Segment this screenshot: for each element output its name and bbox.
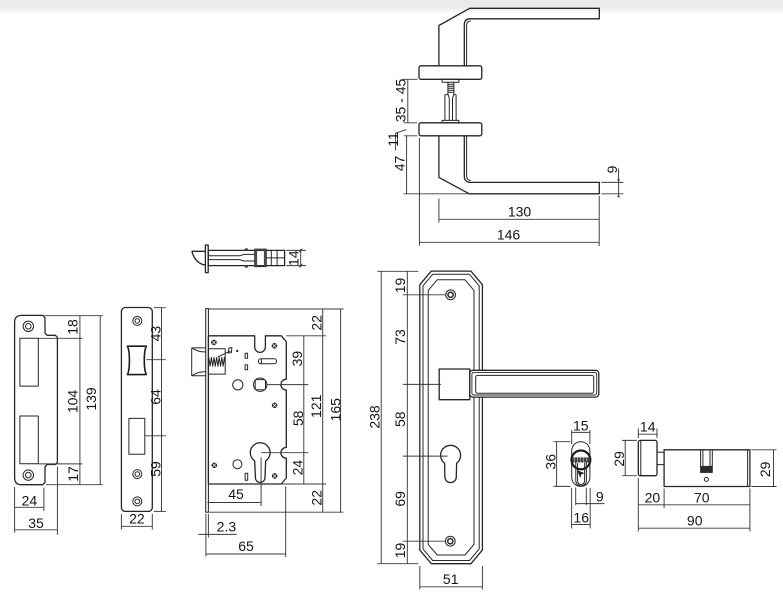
dimension 65 bbox=[206, 487, 286, 558]
escutcheon screws bbox=[445, 290, 455, 546]
svg-text:43: 43 bbox=[148, 326, 164, 342]
thumbturn front view bbox=[572, 442, 591, 487]
dimension 36 bbox=[542, 442, 570, 487]
svg-text:165: 165 bbox=[328, 398, 344, 422]
dimension 59 bbox=[148, 461, 166, 511]
svg-text:70: 70 bbox=[694, 489, 710, 505]
dimension 238 bbox=[367, 271, 383, 563]
lever grip front bbox=[470, 370, 599, 397]
cylinder neck bbox=[657, 452, 664, 464]
cylinder hole euro profile bbox=[250, 443, 270, 483]
dimension 24 (strike) bbox=[15, 487, 44, 533]
svg-text:35: 35 bbox=[28, 515, 44, 531]
svg-text:146: 146 bbox=[497, 226, 521, 242]
lower rosette bbox=[419, 123, 482, 136]
strike plate bbox=[15, 315, 58, 484]
svg-text:9: 9 bbox=[596, 488, 604, 504]
dimension 24 (lock) bbox=[282, 460, 326, 484]
dimension 14 (cylinder) bbox=[638, 419, 657, 438]
svg-text:139: 139 bbox=[83, 387, 99, 411]
dimension 17 bbox=[46, 466, 103, 485]
dimension 73 bbox=[392, 329, 441, 384]
dimension 35-45 bbox=[393, 78, 418, 122]
lock body faceplate strip bbox=[206, 309, 209, 513]
dimension 11 bbox=[385, 130, 406, 151]
dimension 39 bbox=[267, 336, 309, 484]
svg-text:18: 18 bbox=[64, 319, 80, 335]
dimension 29 right bbox=[751, 450, 776, 487]
dimension 146 bbox=[419, 138, 599, 246]
small rect lower bbox=[245, 473, 248, 480]
dimension 130 bbox=[439, 196, 599, 246]
svg-text:24: 24 bbox=[22, 492, 38, 508]
svg-text:9: 9 bbox=[604, 165, 620, 173]
small rectangles bbox=[245, 353, 248, 358]
svg-text:11: 11 bbox=[385, 132, 401, 147]
faceplate bbox=[121, 308, 152, 512]
dimension 22 top (lock) bbox=[209, 309, 344, 512]
svg-text:2.3: 2.3 bbox=[217, 518, 237, 534]
dimension 47 bbox=[392, 136, 470, 194]
svg-text:130: 130 bbox=[508, 203, 532, 219]
dimension 58 (lock) bbox=[261, 410, 308, 452]
escutcheon keyhole bbox=[441, 445, 461, 482]
svg-text:35 - 45: 35 - 45 bbox=[393, 78, 409, 122]
dimension 35 (strike) bbox=[15, 467, 58, 535]
svg-text:16: 16 bbox=[573, 509, 589, 525]
latch spring bbox=[209, 357, 225, 366]
dimension 15 bbox=[572, 417, 590, 444]
dimension 43 bbox=[146, 308, 166, 512]
dimension 45 bbox=[207, 458, 261, 507]
upper rosette bbox=[419, 66, 482, 80]
dot bbox=[236, 350, 238, 352]
svg-text:20: 20 bbox=[645, 489, 661, 505]
small circle bbox=[233, 460, 242, 469]
svg-text:19: 19 bbox=[392, 278, 408, 294]
svg-text:14: 14 bbox=[286, 250, 302, 266]
cylinder knob bbox=[638, 440, 657, 475]
svg-text:73: 73 bbox=[392, 329, 408, 345]
cylinder body bbox=[664, 450, 750, 487]
dimension 14 (latch) bbox=[286, 249, 306, 267]
svg-text:58: 58 bbox=[290, 410, 306, 426]
svg-text:39: 39 bbox=[289, 351, 305, 367]
dimension 64 bbox=[145, 389, 166, 436]
dimension 20 bbox=[638, 478, 750, 532]
svg-text:59: 59 bbox=[148, 461, 164, 477]
lock case outline bbox=[208, 336, 286, 484]
dimension 104 bbox=[38, 390, 82, 464]
svg-text:24: 24 bbox=[290, 460, 306, 476]
svg-text:22: 22 bbox=[308, 315, 324, 331]
dimension 165 bbox=[209, 309, 344, 512]
dimension 22 (faceplate) bbox=[121, 510, 152, 529]
round hole bbox=[233, 380, 243, 390]
svg-text:45: 45 bbox=[228, 486, 244, 502]
svg-text:69: 69 bbox=[392, 491, 408, 507]
follower square bbox=[254, 378, 267, 391]
svg-text:65: 65 bbox=[238, 538, 254, 554]
slot with pin bbox=[258, 359, 276, 364]
spindle with spring bbox=[442, 79, 459, 123]
svg-text:64: 64 bbox=[148, 389, 164, 405]
svg-text:14: 14 bbox=[640, 419, 656, 435]
svg-text:17: 17 bbox=[65, 466, 81, 482]
dimension 9 (thumbturn) bbox=[576, 488, 605, 506]
svg-text:29: 29 bbox=[757, 461, 773, 477]
dimension 19 top (escutcheon) bbox=[377, 271, 446, 563]
dimension 58 (escutcheon) bbox=[392, 411, 447, 456]
svg-text:238: 238 bbox=[367, 405, 383, 429]
svg-text:29: 29 bbox=[611, 451, 627, 467]
dimension 18 bbox=[38, 316, 102, 485]
svg-text:47: 47 bbox=[392, 156, 408, 172]
dimension 19 bottom (escutcheon) bbox=[377, 543, 418, 564]
dimension 29 left bbox=[611, 440, 637, 475]
svg-text:15: 15 bbox=[573, 417, 589, 433]
dimension 51 bbox=[420, 566, 483, 590]
escutcheon plate outlines bbox=[420, 271, 483, 564]
svg-text:104: 104 bbox=[65, 390, 81, 414]
dimension 90 bbox=[638, 489, 750, 532]
lower lever handle side view bbox=[439, 136, 599, 194]
spring flag piece bbox=[228, 348, 232, 353]
upper lever handle side view bbox=[439, 8, 599, 66]
dimension 16 bbox=[572, 488, 591, 529]
svg-text:121: 121 bbox=[308, 394, 324, 418]
screws on case bbox=[211, 340, 277, 479]
latch bolt assembly side view bbox=[192, 245, 285, 273]
dimension 69 bbox=[392, 491, 446, 541]
lever neck front bbox=[439, 369, 470, 400]
dimension 9 (lever thickness) bbox=[601, 165, 623, 197]
latch bolt protruding bbox=[192, 348, 206, 376]
svg-text:58: 58 bbox=[392, 411, 408, 427]
svg-text:22: 22 bbox=[129, 510, 145, 526]
svg-text:19: 19 bbox=[392, 543, 408, 559]
dimension 2.3 bbox=[198, 514, 236, 557]
latch spring box bbox=[208, 349, 225, 374]
svg-text:36: 36 bbox=[542, 454, 558, 470]
dimension 139 bbox=[83, 316, 100, 485]
svg-text:90: 90 bbox=[687, 513, 703, 529]
svg-text:22: 22 bbox=[309, 490, 325, 506]
svg-text:51: 51 bbox=[443, 571, 459, 587]
